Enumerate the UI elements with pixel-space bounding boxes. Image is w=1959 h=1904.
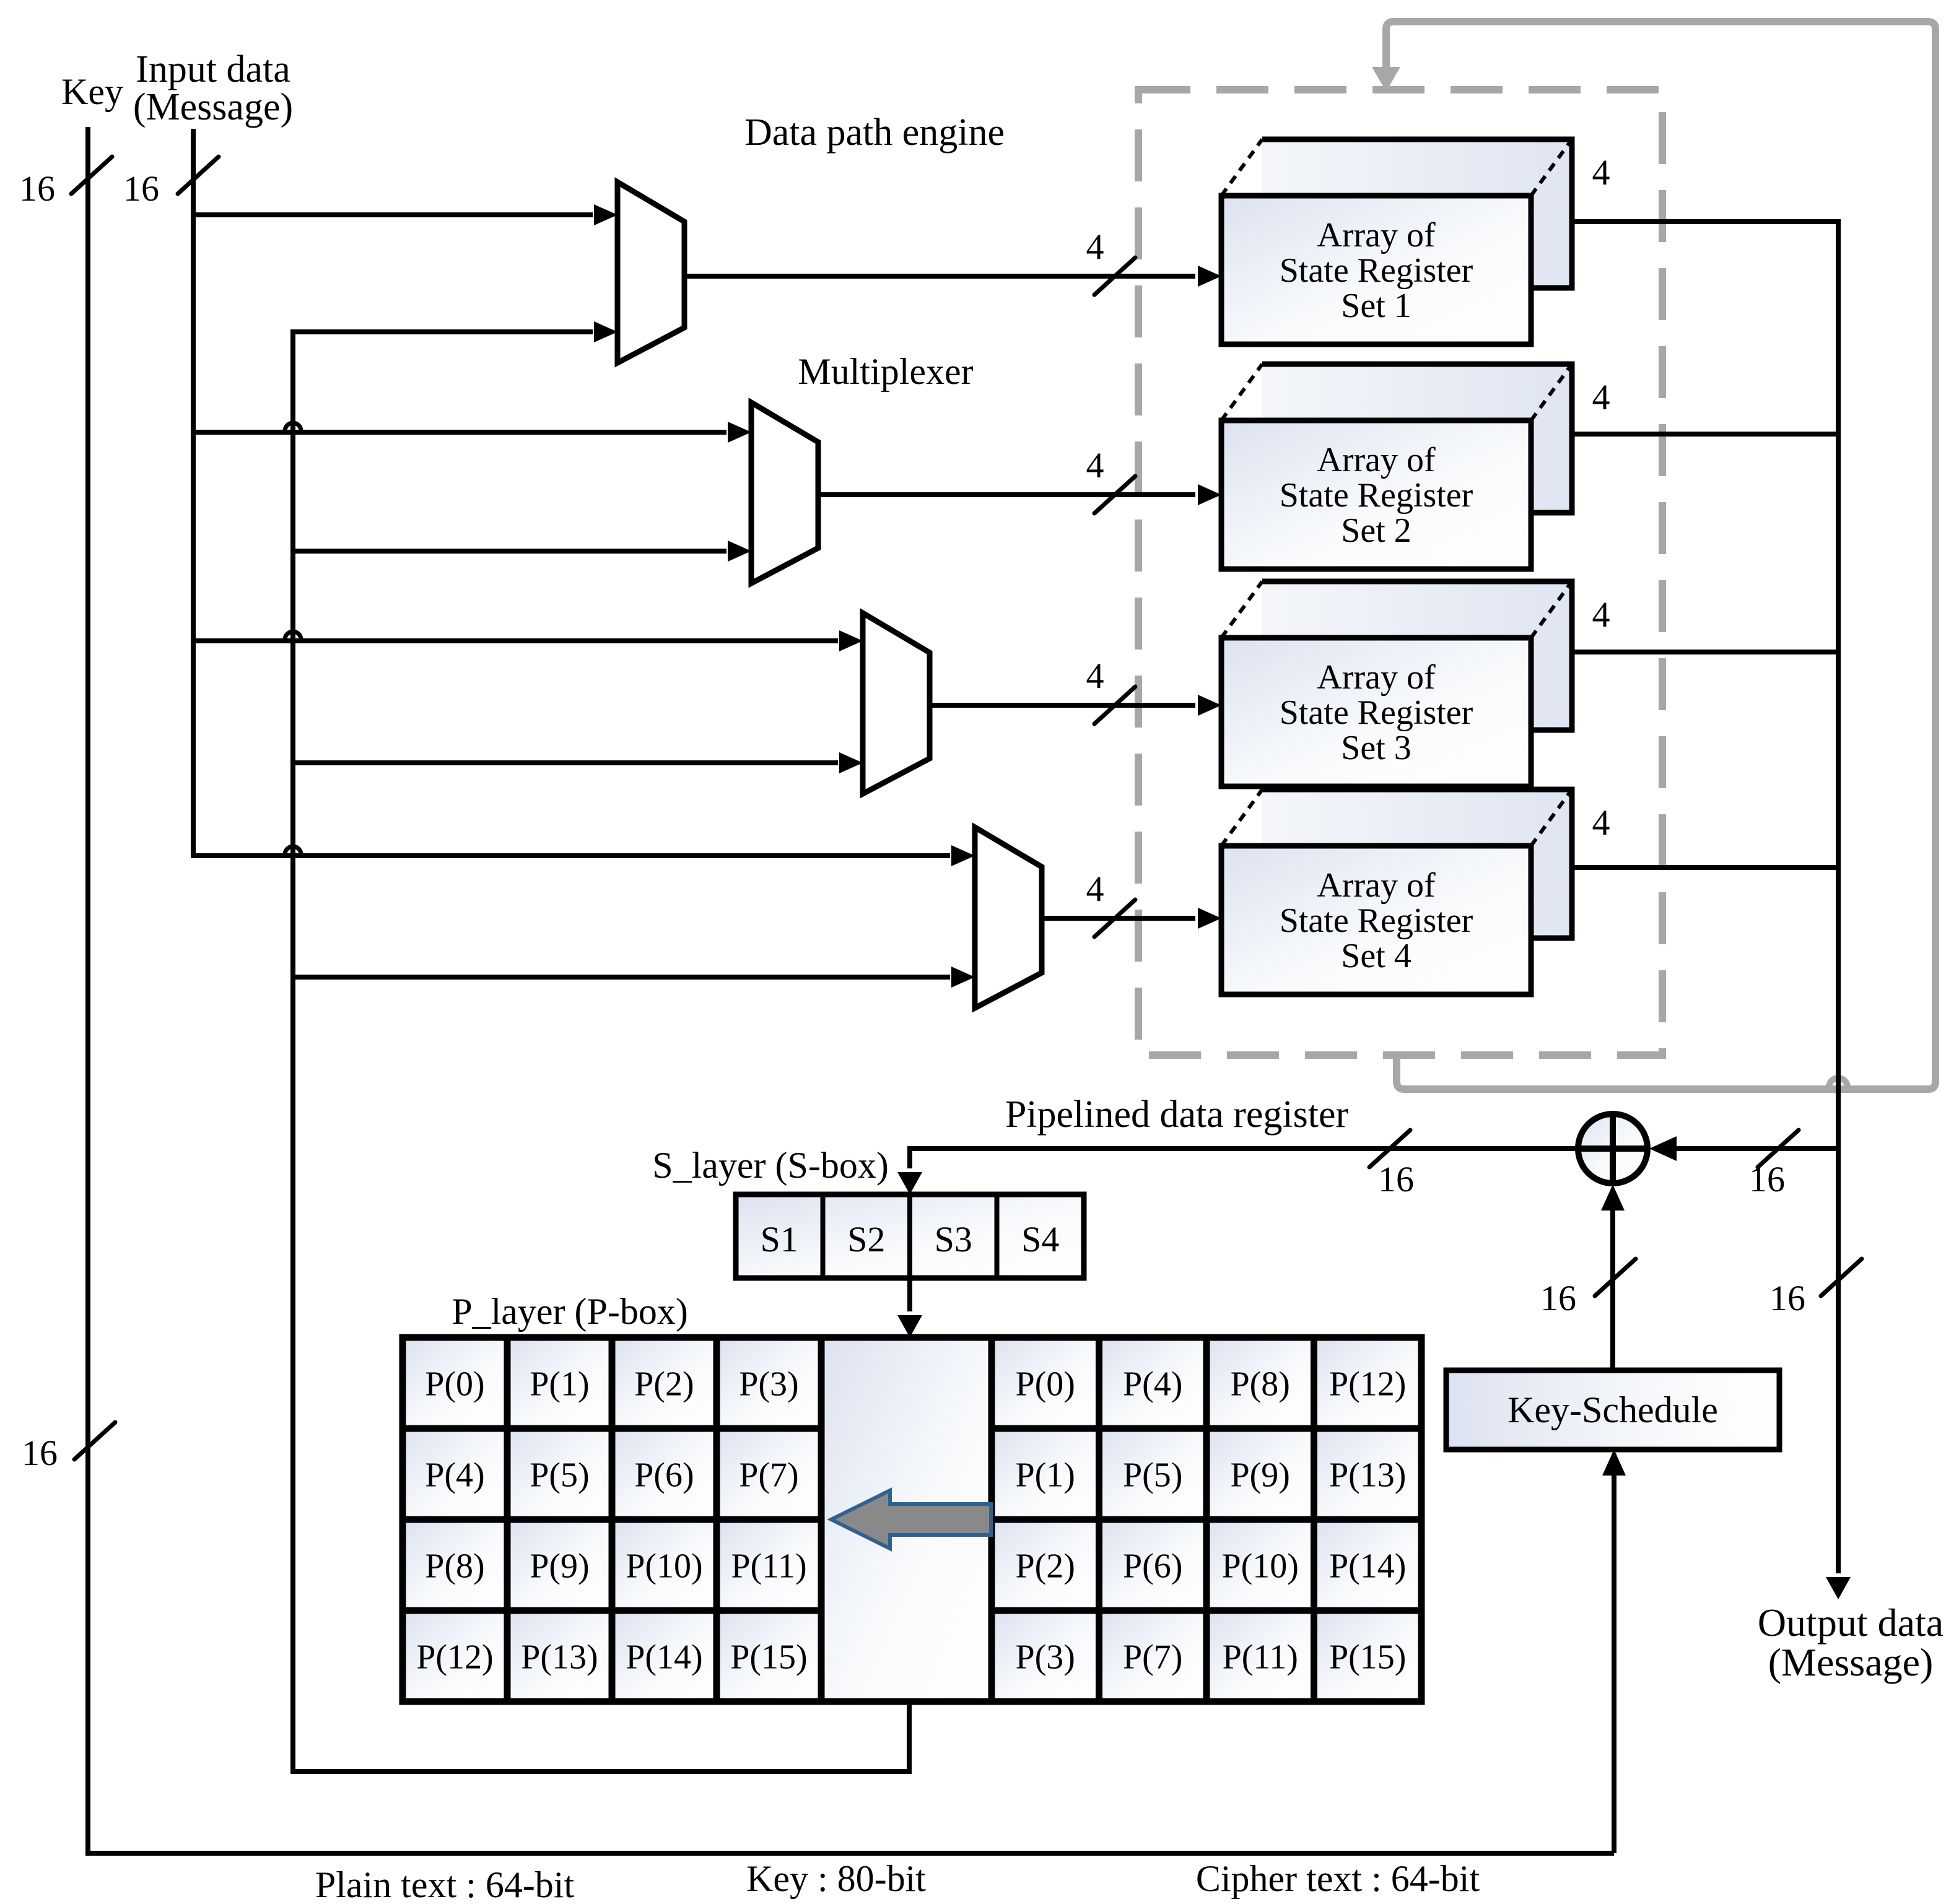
svg-text:4: 4 (1592, 377, 1610, 417)
svg-text:P(7): P(7) (1123, 1638, 1182, 1677)
svg-text:Set 4: Set 4 (1341, 937, 1411, 975)
svg-text:P(1): P(1) (1016, 1456, 1075, 1495)
svg-text:P(2): P(2) (634, 1365, 694, 1404)
svg-text:4: 4 (1086, 445, 1104, 485)
svg-text:(Message): (Message) (133, 86, 293, 128)
svg-text:Array of: Array of (1317, 441, 1436, 479)
svg-text:P(7): P(7) (739, 1456, 798, 1495)
svg-text:P(15): P(15) (730, 1638, 807, 1677)
svg-text:4: 4 (1592, 802, 1610, 843)
svg-text:Key: Key (61, 71, 123, 112)
svg-text:State Register: State Register (1280, 902, 1473, 940)
svg-text:16: 16 (123, 168, 159, 209)
svg-text:P(12): P(12) (1329, 1365, 1406, 1404)
svg-text:P(8): P(8) (425, 1547, 484, 1586)
svg-text:4: 4 (1086, 869, 1104, 909)
svg-text:S_layer (S-box): S_layer (S-box) (652, 1145, 889, 1186)
svg-text:Pipelined data register: Pipelined data register (1005, 1093, 1349, 1136)
svg-text:S1: S1 (761, 1219, 798, 1259)
svg-text:Array of: Array of (1317, 658, 1436, 697)
svg-text:Array of: Array of (1317, 216, 1436, 254)
svg-text:P(3): P(3) (739, 1365, 798, 1404)
svg-text:P(3): P(3) (1016, 1638, 1075, 1677)
svg-text:P(6): P(6) (634, 1456, 694, 1495)
svg-text:4: 4 (1592, 594, 1610, 635)
svg-text:P(12): P(12) (416, 1638, 493, 1677)
svg-text:S3: S3 (935, 1219, 972, 1259)
svg-text:16: 16 (22, 1433, 58, 1473)
svg-text:P(11): P(11) (1223, 1638, 1298, 1677)
svg-text:P(6): P(6) (1123, 1547, 1182, 1586)
svg-text:Input data: Input data (136, 48, 290, 90)
svg-text:P(14): P(14) (1329, 1547, 1406, 1586)
svg-text:P(0): P(0) (1016, 1365, 1075, 1404)
svg-text:Key : 80-bit: Key : 80-bit (746, 1858, 926, 1899)
svg-text:P(5): P(5) (1123, 1456, 1182, 1495)
svg-text:P(5): P(5) (530, 1456, 589, 1495)
svg-text:P(1): P(1) (530, 1365, 589, 1404)
svg-text:P(9): P(9) (530, 1547, 589, 1586)
svg-text:P(4): P(4) (1123, 1365, 1182, 1404)
svg-text:Set 2: Set 2 (1341, 511, 1411, 550)
svg-text:S2: S2 (847, 1219, 885, 1259)
svg-text:P(13): P(13) (521, 1638, 598, 1677)
svg-text:16: 16 (1749, 1159, 1785, 1199)
svg-text:State Register: State Register (1280, 693, 1473, 732)
svg-text:P(10): P(10) (1222, 1547, 1299, 1586)
svg-text:16: 16 (1769, 1278, 1805, 1318)
svg-text:16: 16 (1540, 1278, 1576, 1318)
svg-text:P(4): P(4) (425, 1456, 484, 1495)
svg-text:P(0): P(0) (425, 1365, 484, 1404)
svg-text:Array of: Array of (1317, 866, 1436, 905)
svg-text:P(8): P(8) (1231, 1365, 1290, 1404)
svg-text:16: 16 (1378, 1159, 1414, 1199)
svg-text:P(14): P(14) (626, 1638, 702, 1677)
svg-text:S4: S4 (1021, 1219, 1059, 1259)
svg-text:State Register: State Register (1280, 251, 1473, 290)
svg-text:P(11): P(11) (731, 1547, 806, 1586)
svg-text:P(10): P(10) (626, 1547, 702, 1586)
svg-text:P(13): P(13) (1329, 1456, 1406, 1495)
svg-text:4: 4 (1086, 656, 1104, 696)
svg-text:State Register: State Register (1280, 476, 1473, 515)
svg-text:Set 3: Set 3 (1341, 729, 1411, 767)
svg-text:Data path engine: Data path engine (744, 111, 1005, 154)
svg-text:P_layer (P-box): P_layer (P-box) (452, 1291, 688, 1332)
svg-text:16: 16 (19, 168, 55, 209)
svg-text:P(15): P(15) (1329, 1638, 1406, 1677)
svg-text:P(9): P(9) (1231, 1456, 1290, 1495)
svg-text:4: 4 (1086, 227, 1104, 267)
svg-text:Set 1: Set 1 (1341, 287, 1411, 325)
svg-text:Multiplexer: Multiplexer (798, 351, 973, 392)
svg-text:P(2): P(2) (1016, 1547, 1075, 1586)
svg-text:(Message): (Message) (1768, 1640, 1934, 1684)
svg-text:Output data: Output data (1758, 1601, 1944, 1645)
svg-text:Cipher text : 64-bit: Cipher text : 64-bit (1196, 1858, 1480, 1899)
svg-text:4: 4 (1592, 152, 1610, 193)
svg-text:Plain text : 64-bit: Plain text : 64-bit (315, 1864, 575, 1904)
svg-text:Key-Schedule: Key-Schedule (1507, 1389, 1718, 1430)
